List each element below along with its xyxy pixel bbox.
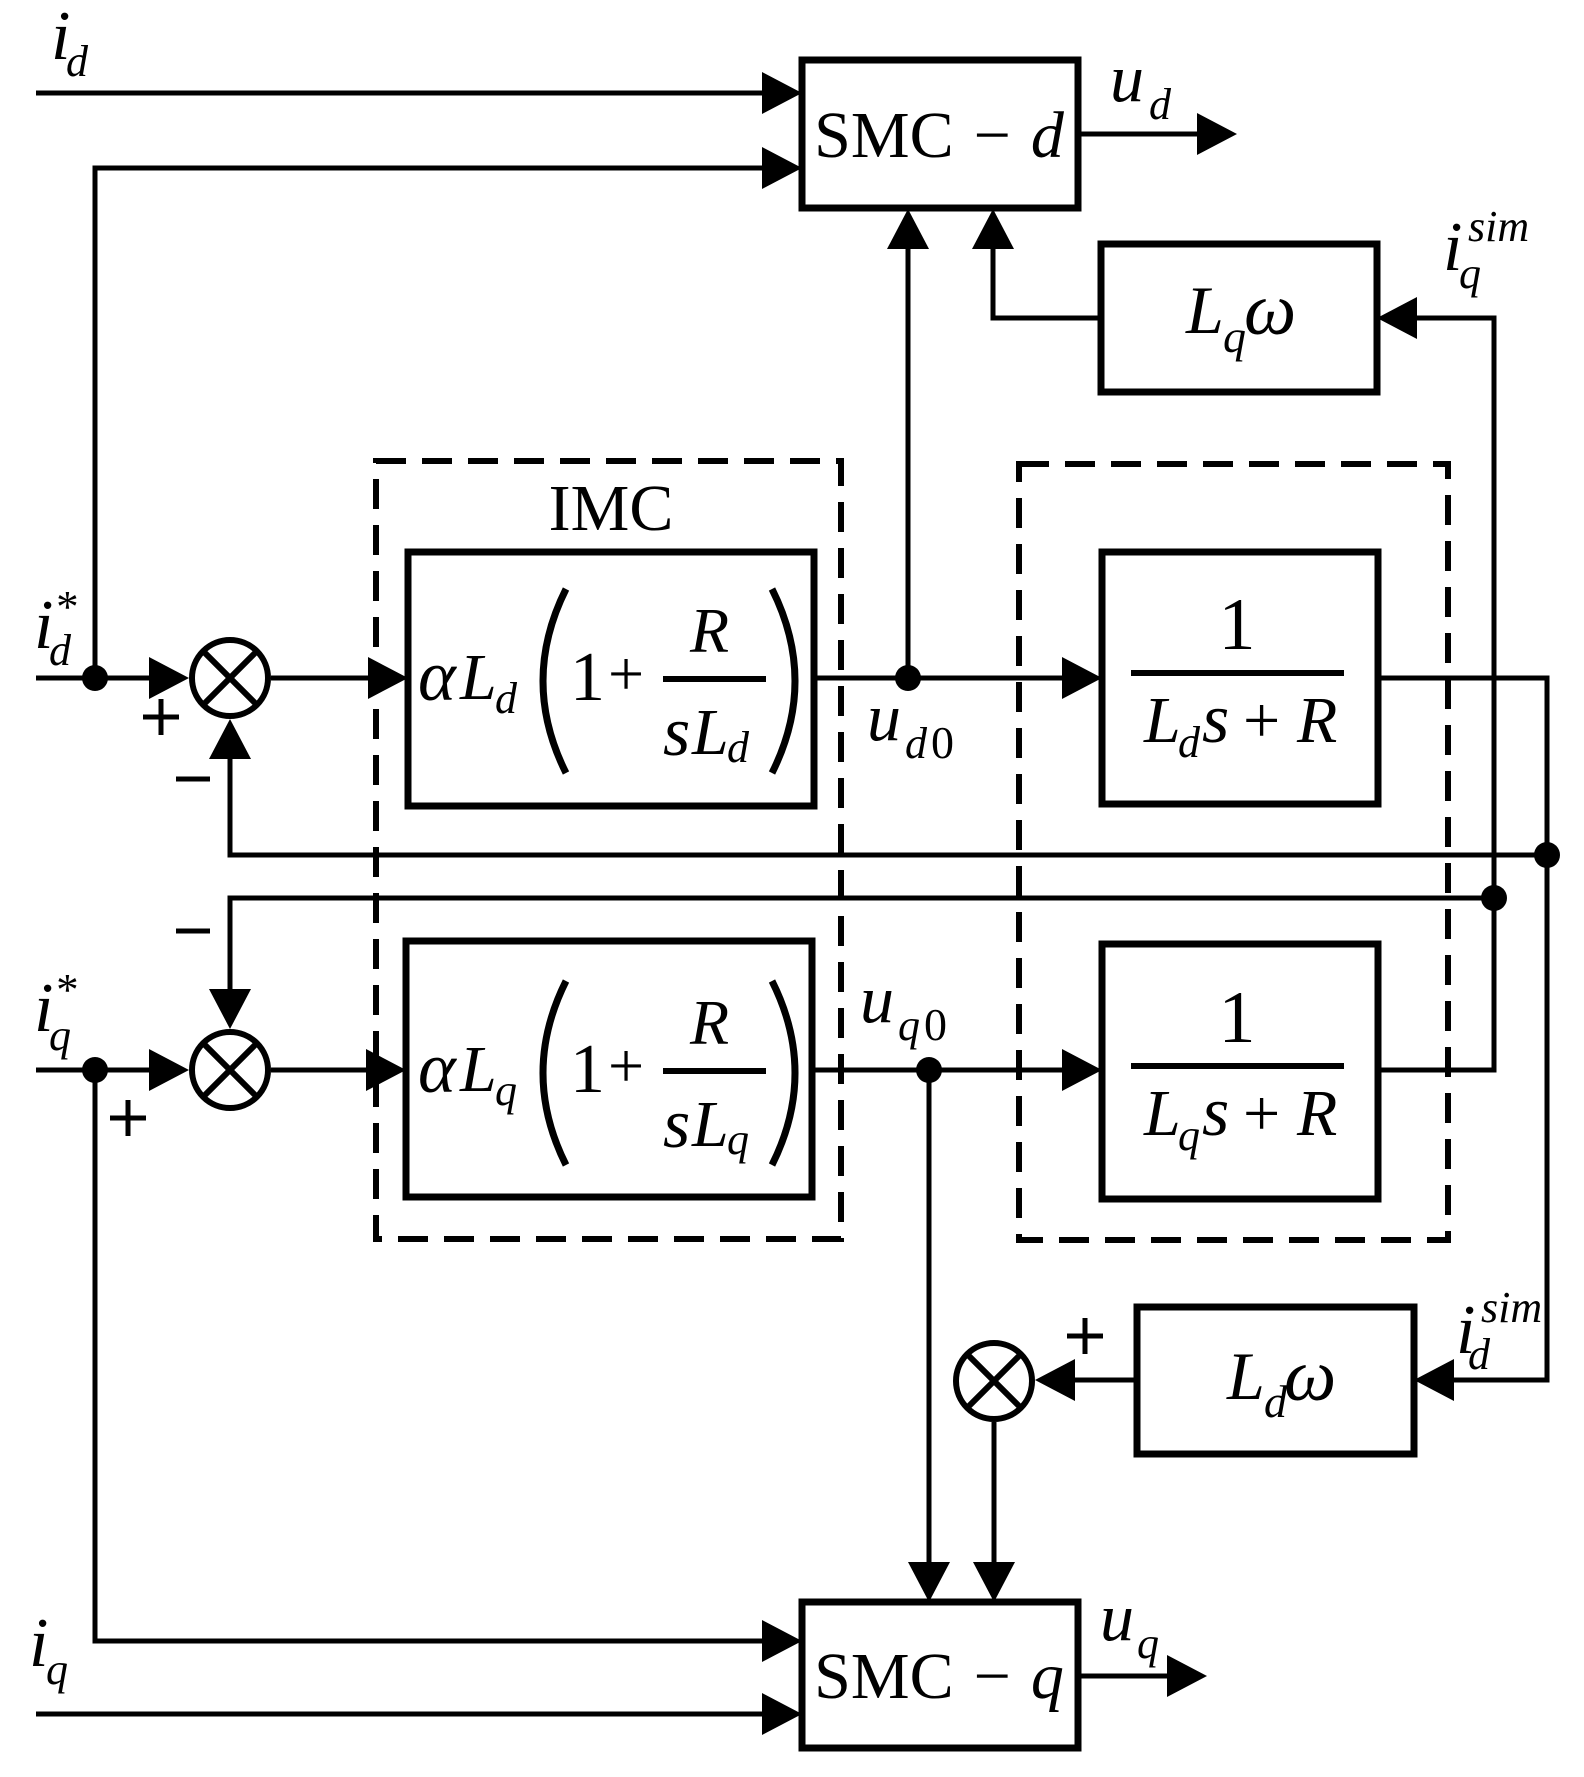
- text 1 + R / sL_d fraction: [570, 595, 766, 772]
- text L_q omega: [1185, 269, 1296, 362]
- svg-text:s: s: [1202, 1074, 1229, 1151]
- label u_d0: [867, 679, 954, 768]
- svg-text:1: 1: [570, 639, 605, 716]
- label u_q0: [860, 961, 947, 1050]
- wire: q plant output right and up (i_q^sim feedback): [1378, 900, 1494, 1070]
- wire: compensation junction down into SMC-q: [973, 1422, 1015, 1602]
- svg-text:q: q: [1178, 1111, 1200, 1160]
- dashed box internal model (plant model) group: [1019, 464, 1448, 1240]
- wire: alpha-Lq output to q plant model with u_q0 node: [812, 1049, 1102, 1091]
- svg-text:L: L: [691, 1088, 729, 1161]
- text alpha L_q factor: [418, 1028, 517, 1115]
- svg-text:u: u: [1100, 1579, 1134, 1655]
- text 1/(L_q s+R): [1131, 977, 1344, 1160]
- svg-text:L: L: [691, 696, 729, 769]
- svg-text:q: q: [49, 1011, 71, 1060]
- left parenthesis d controller: [543, 589, 566, 773]
- svg-text:s: s: [1202, 681, 1229, 758]
- summing junction voltage compensation: [956, 1343, 1032, 1419]
- svg-text:d: d: [49, 626, 72, 675]
- svg-text:d: d: [727, 723, 750, 772]
- node u_d0 dot: [895, 665, 921, 691]
- block L_d*omega (cross-coupling decoupling term): [1137, 1307, 1414, 1454]
- svg-text:+: +: [608, 638, 644, 709]
- block alpha*L_q(1+R/(sL_q)) IMC q controller: [406, 941, 812, 1197]
- svg-text:ω: ω: [1244, 269, 1296, 351]
- wire: u_q0 node down into SMC-q: [908, 1070, 950, 1602]
- svg-text:d: d: [905, 719, 928, 768]
- svg-text:u: u: [1110, 40, 1144, 116]
- block 1/(L_d s+R) d-axis plant model: [1102, 552, 1378, 804]
- wire: d summing junction to alpha-Ld block: [271, 657, 408, 699]
- svg-text:L: L: [1226, 1338, 1265, 1414]
- block SMC-q: [802, 1602, 1078, 1748]
- wire: u_q output arrow: [1078, 1655, 1207, 1697]
- summing junction q-axis: [192, 1032, 268, 1108]
- label IMC: [549, 472, 674, 545]
- svg-text:d: d: [66, 37, 89, 86]
- node i_d* branch dot: [82, 665, 108, 691]
- label - at d summing junction: [176, 777, 210, 782]
- block SMC-d: [802, 60, 1078, 208]
- wire: alpha-Ld output to d plant model with u_d0 node: [814, 657, 1102, 699]
- text alpha L_d factor: [418, 636, 518, 723]
- text SMC-d: [814, 99, 1065, 172]
- wire: i_q input to SMC-q: [36, 1693, 802, 1735]
- svg-text:q: q: [495, 1066, 517, 1115]
- wire: u_d0 node up into SMC-d bottom: [887, 209, 929, 678]
- label + at q summing junction: [110, 1100, 146, 1136]
- svg-text:d: d: [495, 674, 518, 723]
- svg-text:d: d: [1178, 718, 1201, 767]
- dashed box IMC controller group: [376, 461, 841, 1239]
- label i_d^sim (right side): [1456, 1283, 1542, 1379]
- summing junction d-axis: [192, 640, 268, 716]
- wire: L_q*omega output left and up into SMC-d bottom: [972, 209, 1101, 318]
- label i_q (measured q-axis current): [29, 1605, 68, 1694]
- wire: i_d* node branch up into SMC-d second input: [95, 147, 802, 678]
- text L_d omega: [1226, 1335, 1336, 1427]
- svg-text:+: +: [1243, 684, 1280, 757]
- svg-text:1: 1: [1219, 584, 1256, 666]
- right parenthesis d controller: [772, 589, 795, 773]
- svg-text:0: 0: [924, 999, 947, 1050]
- label + at d summing junction: [143, 699, 179, 735]
- svg-text:1: 1: [570, 1031, 605, 1108]
- svg-text:1: 1: [1219, 977, 1256, 1059]
- svg-text:q: q: [898, 1001, 920, 1050]
- svg-text:*: *: [54, 965, 77, 1015]
- svg-text:u: u: [860, 961, 894, 1037]
- svg-text:+: +: [1243, 1077, 1280, 1150]
- block L_q*omega (cross-coupling decoupling term): [1101, 244, 1377, 392]
- text 1 + R / sL_q fraction: [570, 987, 766, 1164]
- svg-text:sim: sim: [1481, 1283, 1542, 1332]
- svg-text:q: q: [1137, 1619, 1159, 1668]
- wire: i_q* input with junction node: [36, 1049, 189, 1091]
- svg-text:R: R: [689, 595, 729, 666]
- label i_q^sim (top right): [1443, 202, 1529, 298]
- svg-text:*: *: [54, 582, 77, 632]
- wire: u_d output arrow: [1078, 113, 1237, 155]
- wire: L_d*omega output into rotation summing junction: [1035, 1359, 1137, 1401]
- svg-text:IMC: IMC: [549, 472, 674, 545]
- svg-text:u: u: [867, 679, 901, 755]
- svg-text:R: R: [689, 987, 729, 1058]
- wire: i_q^sim vertical feed into L_q*omega right edge: [1377, 297, 1494, 902]
- node u_q0 dot: [916, 1057, 942, 1083]
- wire: q summing junction to alpha-Lq block: [271, 1049, 406, 1091]
- label u_q: [1100, 1579, 1159, 1668]
- block alpha*L_d(1+R/(sL_d)) IMC d controller: [408, 552, 814, 806]
- svg-text:L: L: [1143, 1077, 1181, 1150]
- left parenthesis q controller: [543, 981, 566, 1165]
- svg-text:R: R: [1296, 1077, 1337, 1150]
- label - at q summing junction: [176, 929, 210, 934]
- label u_d: [1110, 40, 1172, 129]
- label i_d* (d-axis current reference): [34, 582, 77, 675]
- svg-text:q: q: [1459, 249, 1481, 298]
- svg-text:d: d: [1468, 1330, 1491, 1379]
- svg-text:q: q: [46, 1645, 68, 1694]
- svg-text:d: d: [1149, 80, 1172, 129]
- svg-text:α: α: [418, 1028, 457, 1108]
- node d feedback branch dot: [1534, 842, 1560, 868]
- svg-text:L: L: [459, 641, 497, 714]
- wire: d plant output right, down, into L_d*omega block: [1378, 678, 1547, 1401]
- text 1/(L_d s+R): [1131, 584, 1344, 767]
- text SMC-q: [814, 1640, 1064, 1713]
- svg-text:L: L: [1185, 272, 1224, 348]
- wire: i_d* input with junction node: [36, 657, 189, 699]
- label i_q* (q-axis current reference): [34, 965, 77, 1060]
- svg-text:sim: sim: [1468, 202, 1529, 251]
- label + at rotation summing junction: [1067, 1318, 1103, 1354]
- svg-text:ω: ω: [1284, 1335, 1336, 1417]
- node q feedback branch dot: [1481, 885, 1507, 911]
- svg-text:+: +: [608, 1030, 644, 1101]
- svg-text:0: 0: [931, 717, 954, 768]
- block 1/(L_q s+R) q-axis plant model: [1102, 944, 1378, 1199]
- svg-text:α: α: [418, 636, 457, 716]
- svg-text:s: s: [663, 694, 690, 771]
- wire: q-axis model feedback line to q summing junction (minus): [209, 898, 1494, 1029]
- wire: i_d input to SMC-d: [36, 72, 802, 114]
- svg-text:L: L: [459, 1033, 497, 1106]
- label i_d (measured d-axis current): [51, 0, 89, 86]
- right parenthesis q controller: [772, 981, 795, 1165]
- wire: d-axis model feedback line to d summing junction (minus): [209, 719, 1547, 855]
- svg-text:s: s: [663, 1086, 690, 1163]
- node i_q* branch dot: [82, 1057, 108, 1083]
- svg-text:q: q: [1223, 311, 1246, 362]
- wire: i_q* node branch down into SMC-q first input: [95, 1070, 802, 1662]
- svg-text:L: L: [1143, 684, 1181, 757]
- svg-text:R: R: [1296, 684, 1337, 757]
- svg-text:q: q: [727, 1115, 749, 1164]
